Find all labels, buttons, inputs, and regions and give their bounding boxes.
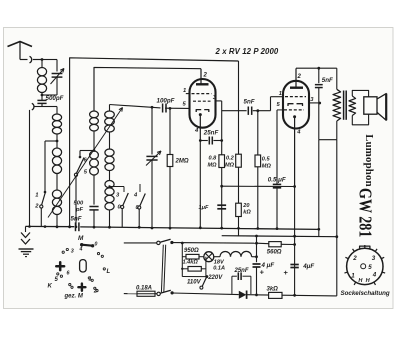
svg-text:1: 1 (35, 193, 38, 199)
svg-text:+: + (260, 268, 265, 277)
svg-text:0: 0 (95, 242, 98, 248)
svg-text:0.2: 0.2 (226, 156, 235, 162)
svg-text:20: 20 (242, 203, 250, 209)
svg-text:2: 2 (203, 73, 208, 79)
svg-text:MΩ: MΩ (225, 163, 235, 169)
svg-text:4μF: 4μF (302, 263, 314, 270)
svg-text:gez. M: gez. M (64, 293, 84, 299)
svg-text:2 x RV 12 P 2000: 2 x RV 12 P 2000 (215, 47, 279, 56)
svg-text:1: 1 (279, 91, 282, 97)
svg-text:25nF: 25nF (203, 129, 219, 136)
svg-text:4: 4 (372, 272, 377, 279)
svg-text:5nF: 5nF (322, 77, 333, 84)
svg-text:3: 3 (372, 255, 376, 262)
svg-text:3kΩ: 3kΩ (267, 286, 279, 292)
svg-text:1: 1 (183, 88, 186, 94)
svg-text:MΩ: MΩ (262, 164, 272, 170)
svg-text:950Ω: 950Ω (184, 248, 199, 254)
svg-text:2: 2 (297, 74, 302, 80)
svg-text:0.18A: 0.18A (136, 285, 152, 291)
svg-text:0.5: 0.5 (262, 157, 271, 163)
svg-text:5nF: 5nF (71, 216, 82, 223)
svg-text:560Ω: 560Ω (267, 250, 282, 256)
svg-text:1.4kΩ: 1.4kΩ (183, 260, 199, 266)
svg-text:Lumophon: Lumophon (363, 134, 375, 187)
svg-text:25nF: 25nF (234, 268, 249, 274)
svg-text:1μF: 1μF (199, 205, 209, 211)
svg-text:M: M (78, 235, 84, 242)
svg-text:L: L (107, 269, 111, 275)
svg-text:0.8: 0.8 (209, 156, 218, 162)
svg-text:500pF: 500pF (46, 95, 64, 102)
svg-text:K: K (48, 283, 53, 289)
svg-text:5: 5 (368, 264, 372, 271)
svg-text:1: 1 (351, 273, 355, 280)
svg-text:kΩ: kΩ (243, 210, 251, 216)
svg-text:0.5 μF: 0.5 μF (268, 177, 286, 184)
svg-text:GW 281: GW 281 (355, 188, 374, 237)
svg-text:MΩ: MΩ (208, 163, 218, 169)
svg-text:110V: 110V (187, 280, 202, 286)
svg-text:Sockelschaltung: Sockelschaltung (341, 290, 390, 297)
svg-text:+: + (284, 268, 289, 277)
svg-text:100pF: 100pF (157, 98, 175, 105)
svg-text:1: 1 (89, 277, 92, 283)
svg-text:220V: 220V (207, 275, 223, 281)
svg-text:5nF: 5nF (244, 99, 255, 106)
svg-text:0.1A: 0.1A (213, 265, 225, 271)
svg-text:3: 3 (71, 248, 74, 254)
svg-text:2: 2 (352, 255, 357, 262)
svg-text:2MΩ: 2MΩ (175, 159, 189, 165)
svg-text:500: 500 (74, 201, 84, 207)
svg-text:4: 4 (79, 247, 83, 253)
